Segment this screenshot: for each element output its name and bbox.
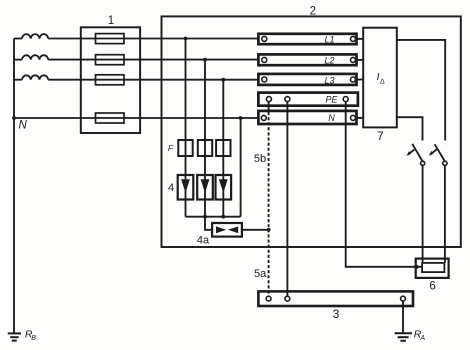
- svg-text:6: 6: [429, 281, 435, 293]
- svg-text:A: A: [419, 335, 425, 342]
- svg-text:L2: L2: [324, 56, 334, 66]
- svg-text:Δ: Δ: [380, 79, 385, 86]
- svg-text:PE: PE: [325, 95, 338, 105]
- svg-text:N: N: [19, 120, 28, 132]
- svg-text:N: N: [328, 113, 335, 123]
- svg-text:B: B: [31, 335, 36, 342]
- svg-text:2: 2: [310, 6, 316, 18]
- svg-text:L3: L3: [324, 75, 334, 85]
- svg-text:L1: L1: [324, 35, 334, 45]
- svg-text:F: F: [168, 143, 174, 153]
- svg-text:1: 1: [108, 15, 114, 27]
- svg-text:5a: 5a: [254, 268, 267, 280]
- svg-text:4a: 4a: [197, 235, 210, 247]
- svg-text:3: 3: [333, 307, 340, 321]
- svg-text:4: 4: [168, 182, 174, 194]
- svg-text:7: 7: [377, 129, 384, 143]
- svg-text:5b: 5b: [254, 153, 266, 165]
